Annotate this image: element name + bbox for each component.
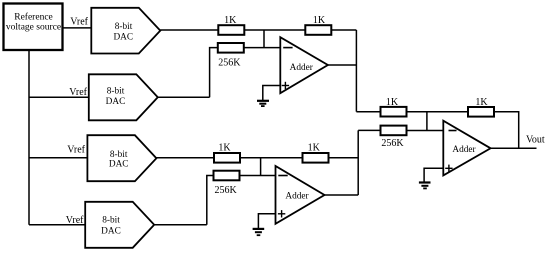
U2 minus pin (278, 175, 287, 177)
svg-text:256K: 256K (381, 138, 404, 149)
ground U1 (257, 100, 269, 102)
svg-text:Reference: Reference (14, 12, 53, 23)
wire inverting input row adder U2 (240, 175, 276, 177)
U2 plus pin (278, 213, 285, 215)
wire DAC2 output (158, 96, 210, 98)
wire U2 non-inverting input to ground (258, 214, 275, 229)
wire U1 non-inverting input to ground (263, 86, 281, 101)
wire DAC3 output to R4 (156, 157, 214, 159)
svg-text:Vout: Vout (526, 134, 545, 145)
wire R6 output to stage2 vertical (329, 157, 359, 159)
resistor R9 1K feedback U3 (468, 107, 494, 117)
svg-text:Vref: Vref (70, 16, 88, 27)
wire inverting input row adder U3 (407, 130, 444, 132)
wire stage2 to R8 (358, 129, 380, 131)
wire junction vertical node C (426, 112, 428, 131)
wire R2 left lead (210, 48, 218, 98)
svg-text:8-bit: 8-bit (115, 22, 133, 32)
wire inverting input row adder U1 (244, 47, 280, 49)
wire R7 output along row to R9 (407, 111, 469, 113)
svg-text:1K: 1K (475, 97, 488, 108)
DAC U7 8-bit DAC (85, 202, 154, 248)
svg-text:Adder: Adder (290, 63, 314, 73)
op-amp U3 Adder (443, 121, 490, 176)
wire R9 output feedback (494, 112, 519, 149)
ground U2 (253, 228, 265, 230)
DAC U6 8-bit DAC (87, 135, 156, 181)
DAC U5 8-bit DAC (89, 74, 158, 120)
U3 minus pin (449, 130, 457, 132)
svg-text:8-bit: 8-bit (107, 87, 125, 97)
DAC U4 8-bit DAC (91, 8, 160, 54)
wire box output to DAC1 (63, 27, 92, 29)
op-amp U2 Adder (276, 166, 325, 224)
wire stage2 output vertical (357, 130, 359, 195)
svg-text:voltage source: voltage source (6, 23, 61, 33)
wire DAC4 output (154, 224, 207, 226)
resistor R7 1K (381, 107, 407, 117)
svg-text:1K: 1K (218, 143, 231, 154)
wire bus to DAC3 (29, 157, 87, 159)
svg-text:1K: 1K (308, 142, 321, 153)
svg-text:Adder: Adder (285, 192, 309, 202)
svg-text:Vref: Vref (69, 87, 87, 98)
wire stage1 output vertical (355, 30, 357, 112)
resistor R1 1K (218, 25, 244, 35)
svg-text:Adder: Adder (452, 145, 476, 155)
resistor R3 1K feedback U1 (305, 25, 331, 35)
svg-text:256K: 256K (218, 58, 241, 69)
wire U3 output to Vout (491, 147, 537, 149)
wire R5 left lead (207, 176, 214, 225)
svg-text:Vref: Vref (66, 215, 84, 226)
op-amp U1 Adder (280, 37, 328, 93)
svg-text:8-bit: 8-bit (110, 150, 128, 160)
wire U2 output (325, 194, 359, 196)
resistor R5 256K (214, 171, 240, 181)
resistor R6 1K feedback U2 (303, 153, 329, 163)
wire R1 output along top row to feedback node (244, 29, 356, 31)
svg-text:DAC: DAC (109, 159, 129, 169)
svg-text:8-bit: 8-bit (102, 215, 120, 225)
wire junction vertical node B (260, 158, 262, 176)
wire bus to DAC4 (29, 224, 85, 226)
resistor R8 256K (381, 126, 407, 136)
wire U1 output (328, 64, 357, 66)
resistor R4 1K (214, 153, 240, 163)
ground U3 (419, 181, 431, 183)
wire stage1 to R7 (356, 111, 380, 113)
U1 plus pin (282, 85, 289, 87)
wire U3 non-inverting input to ground (424, 168, 443, 182)
svg-text:1K: 1K (313, 15, 326, 26)
wire left bus vertical (28, 50, 30, 225)
wire DAC1 output to R1 (160, 29, 218, 31)
wire bus to DAC2 (29, 96, 89, 98)
svg-text:DAC: DAC (101, 227, 121, 237)
resistor R2 256K (218, 43, 244, 53)
U3 plus pin (445, 167, 452, 169)
svg-text:1K: 1K (386, 97, 399, 108)
svg-text:Vref: Vref (67, 145, 85, 156)
svg-text:1K: 1K (224, 15, 237, 26)
svg-text:DAC: DAC (113, 32, 133, 42)
wire junction vertical node A (263, 30, 265, 48)
svg-text:256K: 256K (214, 185, 237, 196)
reference voltage source box (4, 4, 63, 51)
svg-text:DAC: DAC (106, 97, 126, 107)
U1 minus pin (283, 47, 292, 49)
wire R4 output along row to R6 (240, 157, 303, 159)
